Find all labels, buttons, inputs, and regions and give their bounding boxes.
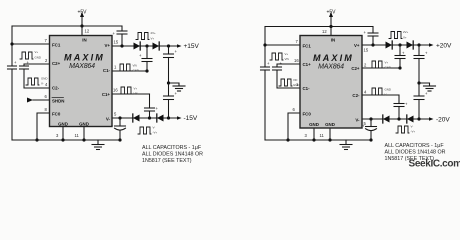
ground filter midpoint 2 (419, 83, 436, 91)
wire output arrow +15V (177, 44, 182, 48)
svg-text:V+: V+ (354, 43, 360, 48)
capacitor C12 (pump, C2- to D7-D8 node) (394, 95, 404, 119)
node filter midpoint (167, 81, 170, 84)
svg-text:V-: V- (411, 125, 414, 129)
diode D4 (157, 114, 164, 122)
wire C1- pin (112, 70, 147, 72)
svg-text:GND: GND (325, 122, 335, 127)
node V+ bypass 2 (371, 43, 374, 46)
svg-text:C2+: C2+ (52, 61, 61, 66)
wire C2+ loop (24, 64, 50, 66)
waveform glyph at C1- (118, 64, 131, 71)
node +5V junction 2 (329, 25, 332, 28)
node GND11 (82, 138, 85, 141)
waveform glyph at C2+ 2 (370, 61, 383, 68)
node V- (118, 116, 121, 119)
svg-text:V-: V- (41, 82, 44, 86)
node GND3 2 (312, 138, 315, 141)
wire C1+ pin (112, 93, 150, 95)
node FC1 junction (10, 42, 13, 45)
svg-text:GND: GND (293, 83, 299, 87)
capacitor C2 (V+ bypass) (117, 31, 127, 34)
node filter midpoint 2 (417, 81, 420, 84)
svg-text:GND: GND (58, 122, 68, 127)
svg-text:+5V: +5V (326, 10, 336, 16)
waveform glyph at C2- 2 (370, 88, 383, 95)
svg-text:C1+: C1+ (303, 62, 312, 67)
svg-text:MAX864: MAX864 (318, 64, 344, 71)
node C5 rail junction (118, 138, 121, 141)
svg-text:V+: V+ (403, 36, 407, 40)
node +20V output (417, 43, 420, 46)
capacitor C7 (-15V filter) (164, 83, 174, 118)
diode D3 (133, 114, 140, 122)
diode D1 (134, 42, 141, 50)
wire left vertical 2 (lower segment) (264, 70, 266, 140)
diode D2 (153, 42, 160, 50)
wire left vertical (lower segment) (11, 69, 13, 140)
svg-text:SeekIC.com: SeekIC.com (409, 159, 460, 170)
wire top +5V rail (12, 25, 122, 27)
wire rail to bypass cap 2 (372, 27, 374, 34)
capacitor C15 (-20V filter) (414, 83, 424, 119)
supply +5V arrow 2 (329, 12, 333, 27)
waveform glyph at C2+ (20, 52, 33, 59)
wire -15V chain (112, 117, 178, 119)
svg-text:V+: V+ (385, 61, 389, 65)
wire bypass cap to V+ node 2 (372, 36, 374, 45)
wire bottom ground rail (12, 139, 120, 141)
svg-text:2V+: 2V+ (151, 31, 157, 35)
svg-text:V-: V- (355, 118, 360, 123)
svg-text:V-: V- (106, 117, 111, 122)
capacitor C8 (C2 flying cap) (20, 66, 29, 69)
svg-text:FC1: FC1 (52, 43, 61, 48)
svg-text:ALL DIODES 1N4148 OR: ALL DIODES 1N4148 OR (142, 152, 203, 158)
wire FC0 to ground rail 2 (288, 113, 300, 140)
wire C2- loop (24, 69, 50, 88)
wire GND pin 3 stub (62, 127, 64, 141)
ground rail symbol (92, 140, 104, 150)
capacitor C11 (pump, D5-D6 node to C2+) (395, 45, 405, 68)
op-amp U2 chip body MAX864 (300, 36, 362, 129)
waveform glyph at D3-D4 node (138, 127, 151, 134)
ground filter midpoint (169, 83, 186, 91)
svg-text:V-: V- (385, 93, 388, 97)
svg-text:GND: GND (41, 77, 47, 81)
wire rail to bypass cap (121, 26, 123, 31)
svg-text:GND: GND (79, 122, 89, 127)
SHDN input arrow (27, 98, 50, 103)
node pump1 top (145, 44, 148, 47)
svg-text:V-: V- (153, 126, 156, 130)
svg-text:ALL CAPACITORS - 1μF: ALL CAPACITORS - 1μF (385, 143, 445, 149)
wire C1- loop 2 (277, 70, 300, 88)
node V- 2 (369, 117, 372, 120)
svg-text:MAX864: MAX864 (69, 63, 95, 70)
svg-text:C2-: C2- (352, 93, 360, 98)
node +5V junction (80, 24, 83, 27)
node V+ bypass (120, 44, 123, 47)
svg-text:C2-: C2- (52, 86, 60, 91)
supply +5V arrow (80, 12, 84, 26)
svg-text:IN: IN (82, 38, 86, 43)
svg-text:C2+: C2+ (351, 66, 360, 71)
SHDN overline (52, 97, 64, 99)
svg-text:V+: V+ (285, 52, 289, 56)
svg-text:ALL CAPACITORS - 1μF: ALL CAPACITORS - 1μF (142, 145, 202, 151)
wire output arrow -15V (177, 116, 182, 120)
waveform glyph at D1-D2 node (136, 33, 149, 40)
wire +20V chain (362, 44, 430, 46)
svg-text:12: 12 (85, 29, 90, 34)
svg-text:16: 16 (294, 58, 299, 63)
node -15V output (167, 116, 170, 119)
svg-text:IN: IN (331, 38, 335, 43)
waveform glyph at D7-D8 node (396, 126, 409, 133)
capacitor C4 (pump, C1+ to D3-D4 node) (145, 94, 155, 118)
svg-text:GND: GND (385, 88, 391, 92)
diode D7 (383, 115, 390, 123)
svg-text:2V+: 2V+ (403, 30, 409, 34)
svg-text:V+: V+ (151, 37, 155, 41)
node FC0 rail junction (35, 138, 38, 141)
wire FC0 to ground rail (37, 113, 50, 140)
wire -20V chain (362, 118, 430, 120)
waveform glyph at C2- (26, 78, 39, 85)
wire GND pin 11 stub (83, 127, 85, 141)
wire FC1 to left rail (12, 43, 50, 45)
node pump3 top (398, 43, 401, 46)
svg-text:FC1: FC1 (303, 44, 312, 49)
svg-text:MAXIM: MAXIM (64, 53, 105, 63)
wire output arrow -20V (429, 117, 434, 121)
wire C2- pin 2 (362, 94, 399, 96)
node pump4 bottom (397, 117, 400, 120)
svg-text:GND: GND (385, 66, 391, 70)
svg-text:FC0: FC0 (303, 112, 312, 117)
wire left vertical (upper segment) (11, 26, 13, 66)
node FC0 rail junction 2 (286, 138, 289, 141)
svg-text:V+: V+ (105, 43, 111, 48)
node C1- cap junction (145, 69, 148, 72)
svg-text:C1-: C1- (303, 86, 311, 91)
svg-text:ALL DIODES 1N4148 OR: ALL DIODES 1N4148 OR (385, 150, 446, 156)
svg-text:+5V: +5V (77, 10, 87, 16)
capacitor C9 (input bypass on left rail) (261, 67, 270, 70)
capacitor C16 (C1 flying cap) (273, 67, 282, 70)
svg-text:15: 15 (364, 48, 369, 53)
svg-text:15: 15 (114, 40, 119, 45)
node GND11 2 (328, 138, 331, 141)
svg-text:-V+: -V+ (153, 131, 158, 135)
node pump2 bottom (148, 116, 151, 119)
node GND3 (61, 138, 64, 141)
capacitor C10 (V+ bypass) (368, 33, 378, 36)
op-amp U1 chip body MAX864 (50, 36, 113, 127)
capacitor C14 (+20V filter) (414, 45, 424, 83)
svg-text:FC0: FC0 (52, 112, 61, 117)
diode D5 (386, 41, 393, 49)
svg-text:-15V: -15V (184, 115, 198, 122)
waveform glyph at D5-D6 node (389, 32, 402, 39)
svg-text:C1-: C1- (103, 68, 111, 73)
svg-text:11: 11 (75, 133, 80, 138)
capacitor C13 (V- reservoir, polarized) (366, 119, 377, 140)
svg-text:+15V: +15V (184, 43, 200, 50)
node -20V output (417, 117, 420, 120)
wire GND pin 3 stub 2 (313, 128, 315, 140)
diode D8 (407, 115, 414, 123)
wire left vertical 2 (upper segment) (264, 27, 266, 68)
wire top +5V rail 2 (265, 26, 373, 28)
node FC1 junction 2 (263, 43, 266, 46)
wire C1+ loop 2 (277, 64, 300, 67)
capacitor C3 (pump, D1-D2 node to C1-) (142, 46, 152, 71)
capacitor C6 (+15V filter) (164, 46, 174, 83)
wire +15V chain (112, 45, 178, 47)
wire pin12 stub (81, 26, 83, 36)
capacitor C5 (V- reservoir, polarized) (115, 118, 126, 140)
svg-text:-20V: -20V (436, 117, 450, 124)
svg-text:1N5817 (SEE TEXT): 1N5817 (SEE TEXT) (142, 158, 192, 164)
node C2+ cap junction (398, 66, 401, 69)
svg-text:V+: V+ (35, 50, 39, 54)
wire FC1 to left rail 2 (265, 44, 300, 46)
svg-text:GND: GND (35, 56, 41, 60)
svg-text:GND: GND (309, 122, 319, 127)
node C13 rail junction (369, 138, 372, 141)
svg-text:12: 12 (322, 29, 327, 34)
waveform glyph at C1+ (119, 87, 132, 94)
svg-text:+20V: +20V (436, 43, 452, 50)
capacitor C1 (input bypass on left rail) (8, 66, 17, 69)
svg-text:GND: GND (133, 69, 139, 73)
svg-text:V+: V+ (134, 87, 138, 91)
node +15V output (167, 44, 170, 47)
diode D6 (407, 41, 414, 49)
svg-text:C1+: C1+ (102, 92, 111, 97)
wire bottom ground rail 2 (265, 139, 371, 141)
wire C2+ pin 2 (362, 67, 400, 69)
svg-text:MAXIM: MAXIM (313, 53, 354, 63)
wire pin12 stub 2 (330, 27, 332, 36)
wire output arrow +20V (429, 43, 434, 47)
wire GND pin 11 stub 2 (329, 128, 331, 140)
svg-text:SHDN: SHDN (52, 99, 64, 104)
ground rail symbol 2 (340, 140, 352, 150)
svg-text:11: 11 (320, 133, 325, 138)
waveform glyph at C1+ 2 (270, 53, 283, 60)
waveform glyph at C1- 2 (279, 79, 292, 86)
svg-text:16: 16 (113, 88, 118, 93)
wire bypass cap to V+ node (121, 34, 123, 46)
svg-text:-V+: -V+ (411, 130, 416, 134)
